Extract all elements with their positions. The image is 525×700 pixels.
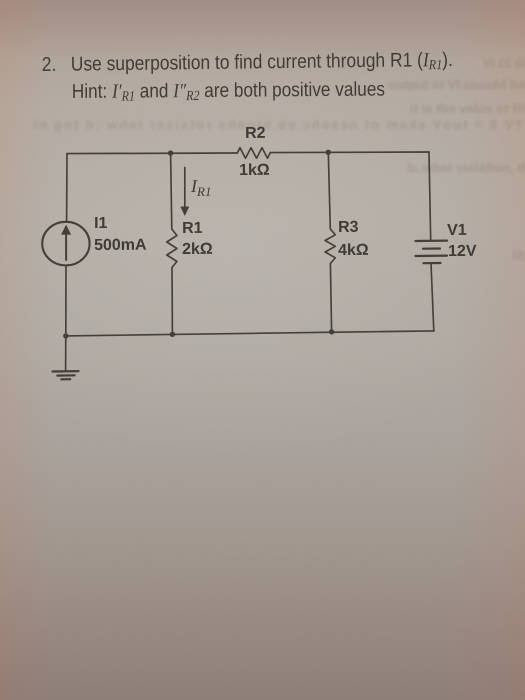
label R3 [338,219,359,237]
resistor R2 [237,148,270,159]
node dot: R1 top [168,150,173,155]
faint show-through (mirrored) text lines [455,56,525,70]
wire: left vertical bottom [65,265,67,336]
wire: top left segment [67,152,237,155]
label 4kOhm [338,242,369,260]
ground [65,336,67,371]
label R2 [245,125,266,143]
header line 1 [42,48,453,78]
label R1 [182,219,203,237]
node dot: R3 top [326,150,331,155]
wire: R3 branch bottom [330,264,331,332]
wire: R1 branch bottom [171,268,173,335]
wire: bottom [66,331,434,336]
resistor R3 [325,229,335,264]
current arrow I_R1 [184,168,186,208]
label I_R1 current arrow label [191,176,212,200]
wire: R1 branch top [171,153,172,229]
label V1 [447,221,467,239]
node dot: R3 bottom [329,329,334,334]
current source arrow [65,234,67,260]
battery V1 plates [416,240,448,243]
header line 2 [72,78,385,105]
wire: V1 branch top [429,152,431,241]
node dot: R1 bottom [170,332,175,337]
wire: top right segment [270,151,429,154]
current source I1 [42,222,89,266]
resistor R1 [167,229,177,268]
label 500mA [94,236,147,254]
wire: left vertical top [66,154,68,222]
label 12V [448,243,477,261]
node dot: ground node [63,333,68,338]
wire: V1 branch bottom [431,263,434,331]
label 2kOhm [182,241,213,259]
label 1kOhm [239,162,270,180]
wire: R3 branch top [328,152,330,229]
label I1 [94,215,107,233]
